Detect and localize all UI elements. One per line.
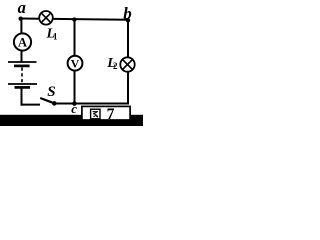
svg-text:b: b [123,4,132,23]
svg-text:V: V [71,56,80,70]
svg-text:7: 7 [107,106,115,123]
svg-text:1: 1 [53,32,58,42]
svg-text:A: A [18,36,27,50]
svg-text:2: 2 [113,61,118,71]
svg-text:a: a [18,0,26,17]
svg-text:c: c [71,101,77,116]
svg-text:S: S [47,84,55,100]
